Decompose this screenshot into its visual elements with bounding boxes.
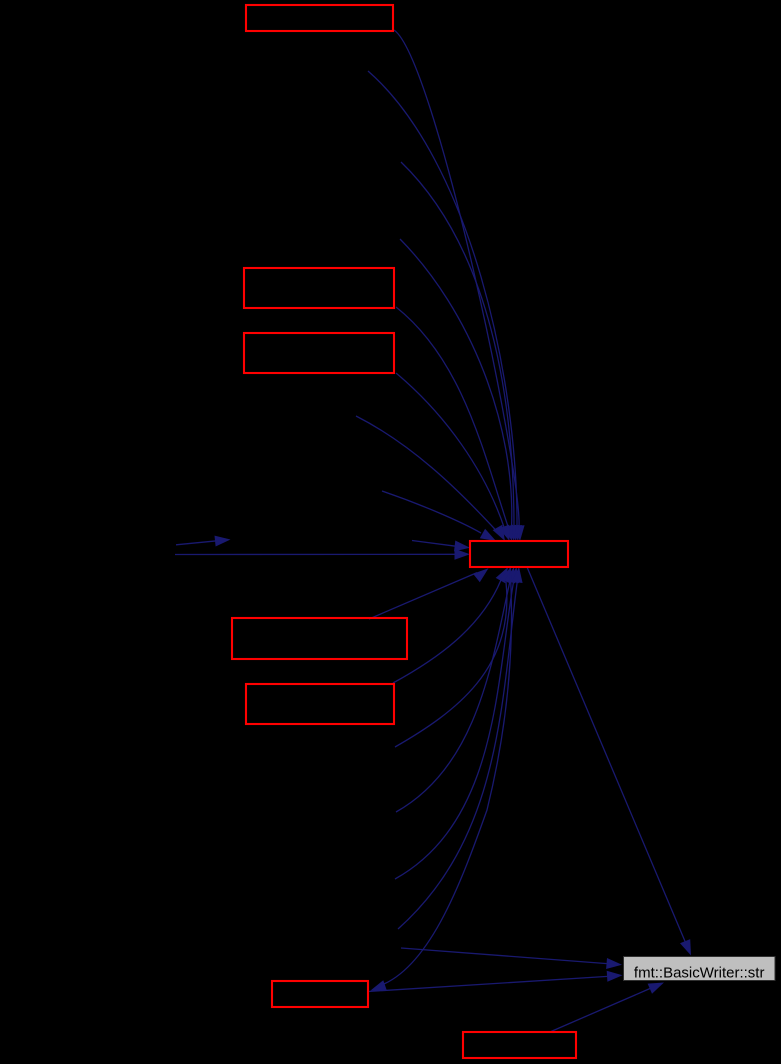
edge b2 box-R6 to center bottom bbox=[393, 567, 508, 683]
node fmt::BasicWriter::str (current, gray) bbox=[624, 957, 776, 982]
edge b5 hidden-node to center bottom bbox=[395, 567, 519, 879]
node R8 bottom red box bbox=[463, 1032, 576, 1058]
edge l1 hidden-node to center left bbox=[412, 541, 470, 552]
edge t8 hidden-node to center bbox=[382, 491, 496, 541]
node C central red box bbox=[470, 541, 568, 567]
edge t6 box-R3 to center bbox=[396, 373, 510, 541]
edge g3 box-R8 to fmt::BasicWriter::str bbox=[551, 983, 664, 1032]
edge b1 box-R5 to center bottom bbox=[369, 568, 489, 619]
edge t1 top-box to center bbox=[394, 30, 525, 541]
node R7 bottom-left red box bbox=[272, 981, 368, 1007]
edge b6 hidden-node to center bottom bbox=[398, 567, 523, 929]
edge b3 hidden-node to center bottom bbox=[395, 567, 511, 747]
edge g1 hidden-node to fmt::BasicWriter::str bbox=[401, 948, 622, 969]
edge g2 box-R7 to fmt::BasicWriter::str bbox=[368, 971, 623, 992]
node R6 red box bbox=[246, 684, 394, 724]
node R5 red box bbox=[232, 618, 407, 659]
svg-text:fmt::BasicWriter::str: fmt::BasicWriter::str bbox=[634, 964, 765, 981]
node R1 top red box bbox=[246, 5, 393, 31]
edge t2 hidden-node to center bbox=[368, 71, 522, 541]
edge sa short arrow between hidden nodes bbox=[176, 536, 231, 547]
edge l2 far-left hidden-node to center left bbox=[175, 549, 470, 560]
edge t5 box-R2 to center bbox=[396, 307, 513, 541]
edge t3 hidden-node to center bbox=[401, 162, 519, 541]
edge t4 hidden-node to center bbox=[400, 239, 516, 541]
edge o1 center to fmt::BasicWriter::str bbox=[527, 567, 691, 956]
edge o2 center to box-R7 bbox=[371, 567, 512, 991]
node R2 red box bbox=[244, 268, 394, 308]
edge b4 hidden-node to center bottom bbox=[396, 567, 515, 812]
edge t7 hidden-node to center bbox=[356, 416, 505, 541]
node R3 red box bbox=[244, 333, 394, 373]
